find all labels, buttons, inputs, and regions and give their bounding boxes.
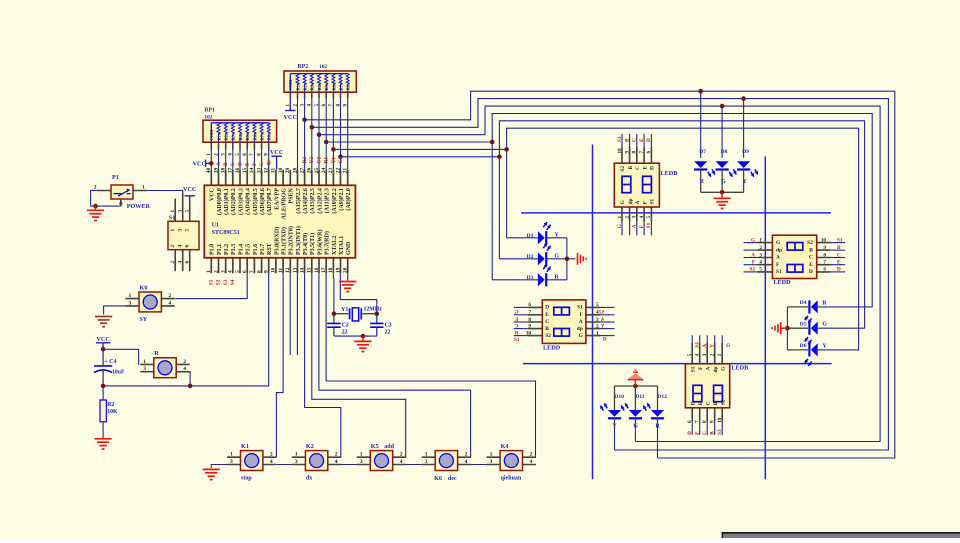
svg-text:3: 3	[178, 229, 184, 232]
capacitor C4 10uF	[102, 349, 104, 386]
svg-text:8: 8	[632, 151, 638, 154]
push button K0	[126, 284, 175, 323]
svg-text:R2: R2	[107, 402, 114, 408]
svg-text:9: 9	[710, 420, 716, 423]
capacitor C3 22	[376, 314, 378, 336]
svg-text:9: 9	[823, 245, 826, 251]
svg-text:2: 2	[465, 452, 468, 458]
svg-text:B: B	[837, 245, 841, 251]
wire net R2 bus line1	[305, 91, 895, 458]
svg-text:3: 3	[360, 459, 363, 465]
svg-text:D5: D5	[800, 321, 807, 327]
svg-text:Y: Y	[710, 344, 716, 348]
wire net R1 bus line4	[326, 114, 872, 307]
svg-text:3: 3	[596, 317, 599, 323]
svg-text:(A14)P2.6: (A14)P2.6	[302, 188, 309, 214]
svg-text:G: G	[514, 310, 518, 316]
svg-text:A: A	[632, 224, 638, 228]
svg-text:R6w: R6w	[331, 81, 336, 90]
resistor R2 10K	[102, 386, 104, 400]
svg-text:3: 3	[632, 216, 638, 219]
svg-text:P3.7(RD): P3.7(RD)	[324, 231, 331, 255]
wire crystal caps common	[334, 335, 377, 337]
wire button chain bottom pins	[277, 464, 536, 466]
svg-text:R8w: R8w	[267, 131, 272, 140]
power rail above D10-D12	[615, 385, 658, 387]
svg-text:12: 12	[285, 267, 291, 273]
push button R	[140, 350, 189, 377]
svg-text:14: 14	[299, 267, 305, 273]
svg-text:qiehuan: qiehuan	[501, 476, 522, 482]
svg-text:E: E	[639, 138, 645, 142]
svg-text:2: 2	[530, 452, 533, 458]
svg-text:P3.4(T0): P3.4(T0)	[302, 233, 309, 255]
wire P3.4 to K2	[305, 273, 341, 457]
led D6	[787, 343, 827, 366]
svg-text:VCC: VCC	[284, 114, 297, 121]
svg-text:K4: K4	[501, 443, 509, 450]
svg-text:6: 6	[823, 267, 826, 273]
svg-text:D: D	[809, 269, 813, 275]
wire P1 pin1 to S1 pin3	[147, 191, 183, 194]
svg-text:C: C	[702, 431, 708, 435]
7-seg display LEDD right	[744, 235, 846, 286]
svg-text:3: 3	[230, 459, 233, 465]
push button K5	[357, 443, 406, 471]
connector S1	[168, 193, 199, 271]
svg-text:1: 1	[170, 229, 176, 232]
svg-text:G: G	[721, 179, 726, 185]
svg-text:(A10)P2.2: (A10)P2.2	[331, 188, 338, 214]
svg-text:D2: D2	[527, 254, 534, 260]
led D11	[621, 386, 645, 442]
svg-text:1: 1	[717, 353, 723, 356]
svg-text:10: 10	[526, 330, 532, 336]
svg-text:R2: R2	[302, 157, 308, 164]
svg-text:R5w: R5w	[324, 81, 329, 90]
push button K4	[487, 443, 536, 482]
svg-text:R1w: R1w	[295, 81, 300, 90]
svg-text:12MHz: 12MHz	[364, 307, 383, 313]
svg-text:6: 6	[242, 270, 248, 273]
svg-text:U1: U1	[212, 223, 219, 229]
svg-text:VCC: VCC	[270, 149, 283, 156]
svg-text:1: 1	[617, 216, 623, 219]
led D12	[643, 386, 667, 458]
svg-text:S4: S4	[230, 279, 236, 285]
wire D3 feed from line4	[491, 142, 493, 280]
svg-text:P3.0(RXD): P3.0(RXD)	[273, 227, 280, 255]
led D9	[737, 96, 758, 192]
svg-text:G: G	[822, 322, 827, 328]
svg-text:D9: D9	[742, 149, 749, 155]
svg-text:18: 18	[328, 267, 334, 273]
svg-text:G: G	[751, 237, 755, 243]
svg-text:D3: D3	[527, 275, 534, 281]
wire reset line to U1 RST	[103, 273, 269, 386]
svg-text:E: E	[809, 262, 813, 268]
wire D1 feed from line5	[506, 149, 508, 237]
svg-text:C: C	[705, 401, 711, 405]
svg-text:G2: G2	[316, 156, 322, 163]
svg-text:7: 7	[823, 260, 826, 266]
svg-text:1: 1	[129, 293, 132, 299]
ground at K1	[203, 468, 220, 470]
svg-text:P1.2: P1.2	[224, 244, 230, 255]
svg-text:4: 4	[639, 216, 645, 219]
svg-text:D10: D10	[614, 394, 624, 400]
led D4	[787, 300, 827, 323]
svg-text:3: 3	[119, 202, 125, 205]
switch P1 POWER	[94, 174, 151, 210]
svg-text:(AD1)P0.1: (AD1)P0.1	[223, 188, 230, 215]
led D3	[492, 264, 559, 286]
svg-text:F: F	[252, 163, 258, 166]
led D5	[787, 321, 827, 344]
svg-text:4: 4	[178, 261, 184, 264]
wire P3.2 stub	[289, 273, 291, 355]
svg-text:(AD3)P0.3: (AD3)P0.3	[237, 188, 244, 215]
wire bright vertical V1	[592, 145, 594, 480]
svg-text:P3.5(T1): P3.5(T1)	[309, 233, 316, 255]
svg-text:S2: S2	[620, 166, 626, 172]
svg-text:1: 1	[425, 452, 428, 458]
svg-text:4: 4	[270, 459, 273, 465]
svg-text:S2: S2	[599, 310, 605, 316]
svg-text:2: 2	[759, 245, 762, 251]
svg-text:G: G	[720, 367, 726, 371]
svg-text:RST: RST	[267, 243, 273, 255]
svg-text:1: 1	[143, 359, 146, 365]
svg-text:R4w: R4w	[238, 131, 243, 140]
power VCC on S1 pin5	[185, 195, 195, 197]
svg-text:D: D	[650, 166, 656, 170]
svg-text:1: 1	[490, 452, 493, 458]
svg-text:R1w: R1w	[216, 131, 221, 140]
svg-text:13: 13	[292, 267, 298, 273]
ground sideways right of D2	[577, 253, 579, 265]
push button K2	[292, 443, 341, 482]
svg-text:4: 4	[596, 310, 599, 316]
svg-text:F: F	[639, 225, 645, 228]
svg-text:B: B	[514, 330, 518, 336]
svg-text:(AD2)P0.2: (AD2)P0.2	[230, 188, 237, 215]
svg-text:G1: G1	[338, 156, 344, 163]
svg-text:G: G	[259, 162, 265, 166]
wire R pin4 down to reset line	[189, 372, 191, 386]
svg-text:(A11)P2.3: (A11)P2.3	[324, 188, 331, 213]
svg-text:S1: S1	[690, 366, 696, 372]
svg-text:P1.7: P1.7	[260, 244, 266, 255]
svg-text:P1.0: P1.0	[210, 244, 216, 255]
ground below D7-D9	[721, 192, 723, 198]
svg-text:4: 4	[400, 459, 403, 465]
svg-text:R3w: R3w	[231, 131, 236, 140]
svg-text:COM: COM	[288, 80, 293, 91]
svg-text:22: 22	[342, 329, 348, 335]
svg-text:(AD6)P0.6: (AD6)P0.6	[259, 188, 266, 215]
ground at U1 GND	[339, 281, 356, 283]
push button K1	[227, 443, 276, 482]
svg-text:XTAL2: XTAL2	[332, 236, 338, 255]
svg-text:7: 7	[639, 151, 645, 154]
svg-text:S1: S1	[514, 337, 520, 343]
svg-text:A: A	[601, 317, 605, 323]
svg-text:(AD4)P0.4: (AD4)P0.4	[245, 188, 252, 215]
svg-text:D4: D4	[800, 300, 807, 306]
svg-text:4: 4	[178, 245, 184, 248]
wire D2 cathode to ground	[547, 258, 576, 260]
svg-text:11: 11	[278, 268, 284, 273]
svg-text:B: B	[713, 401, 719, 405]
led D8	[716, 104, 737, 193]
svg-text:LEDD: LEDD	[773, 279, 791, 286]
svg-text:R3w: R3w	[310, 81, 315, 90]
svg-text:F: F	[752, 260, 755, 266]
svg-text:(AD5)P0.5: (AD5)P0.5	[252, 188, 259, 215]
wire D1 D3 cathodes joined	[547, 237, 567, 239]
svg-text:P1.1: P1.1	[217, 244, 223, 255]
svg-text:S1: S1	[837, 237, 843, 243]
svg-text:102: 102	[204, 115, 212, 121]
crystal Y1 12MHz	[334, 313, 377, 315]
svg-text:D12: D12	[657, 394, 667, 400]
svg-text:D: D	[237, 162, 243, 166]
svg-text:A: A	[751, 252, 755, 258]
svg-text:29: 29	[285, 168, 291, 174]
svg-text:3: 3	[143, 366, 146, 372]
svg-text:D1: D1	[527, 233, 534, 239]
svg-text:2: 2	[170, 261, 176, 264]
svg-text:S1: S1	[776, 269, 782, 275]
svg-text:K0: K0	[140, 284, 148, 291]
svg-text:S1: S1	[169, 216, 175, 222]
svg-text:C3: C3	[385, 322, 392, 328]
svg-text:P1.4: P1.4	[238, 244, 244, 255]
svg-text:3: 3	[490, 459, 493, 465]
wire bright horizontal H2	[523, 363, 832, 365]
svg-text:2: 2	[183, 359, 186, 365]
push button K6	[422, 451, 471, 471]
svg-text:VCC: VCC	[210, 188, 216, 201]
svg-text:PSEN: PSEN	[289, 187, 295, 203]
svg-text:(AD0)P0.0: (AD0)P0.0	[216, 188, 223, 215]
ground below crystal	[362, 336, 364, 341]
svg-text:S1: S1	[577, 305, 583, 311]
wire net G2 bus line3	[319, 106, 880, 441]
svg-text:E: E	[642, 166, 648, 170]
mcu U1 STC89C51	[204, 168, 355, 274]
svg-text:10: 10	[821, 237, 827, 243]
power VCC below RP2 pin1	[289, 98, 291, 111]
svg-text:+ C4: + C4	[105, 359, 117, 365]
svg-text:D: D	[687, 431, 693, 435]
svg-text:22: 22	[385, 329, 391, 335]
svg-text:3: 3	[221, 270, 227, 273]
svg-text:E: E	[245, 162, 251, 166]
svg-text:6: 6	[185, 261, 191, 264]
svg-text:4: 4	[759, 260, 762, 266]
svg-text:(A8)P2.0: (A8)P2.0	[345, 188, 352, 211]
wire P3.1 to K1	[276, 273, 283, 457]
svg-text:4: 4	[465, 459, 468, 465]
svg-text:B: B	[710, 431, 716, 435]
wire D7-D9 cathini common rail	[701, 191, 744, 193]
svg-text:(A9)P2.1: (A9)P2.1	[338, 188, 345, 211]
svg-text:LEDD: LEDD	[543, 345, 561, 352]
svg-text:S1: S1	[209, 279, 215, 285]
svg-text:1: 1	[759, 237, 762, 243]
svg-text:S3: S3	[717, 429, 723, 435]
svg-text:R1: R1	[324, 157, 330, 164]
title block edge bottom right	[722, 532, 960, 538]
svg-text:2: 2	[624, 216, 630, 219]
svg-text:LEDB: LEDB	[731, 364, 748, 371]
svg-text:E: E	[695, 431, 701, 435]
svg-text:2: 2	[335, 452, 338, 458]
svg-text:D: D	[603, 337, 607, 343]
svg-text:10: 10	[717, 417, 723, 423]
svg-text:C: C	[809, 255, 813, 261]
svg-text:G: G	[726, 343, 730, 349]
svg-text:B: B	[624, 138, 630, 142]
svg-text:20: 20	[343, 267, 349, 273]
svg-text:6: 6	[528, 302, 531, 308]
led D2	[499, 243, 559, 265]
svg-text:E: E	[545, 312, 549, 318]
wire net Y1 bus line5	[333, 128, 858, 350]
svg-text:S2: S2	[545, 333, 551, 339]
svg-text:Y2: Y2	[309, 157, 315, 164]
wire D2 feed from line6	[498, 157, 500, 259]
svg-text:dp: dp	[776, 247, 782, 253]
svg-text:S4: S4	[695, 342, 701, 348]
svg-text:19: 19	[335, 267, 341, 273]
svg-text:102: 102	[319, 64, 327, 70]
svg-text:(AD7)P0.7: (AD7)P0.7	[266, 188, 273, 215]
svg-text:EA/VPP: EA/VPP	[274, 188, 280, 210]
svg-text:P3.6(WR): P3.6(WR)	[316, 230, 323, 256]
svg-text:P1.6: P1.6	[253, 244, 259, 255]
svg-text:D6: D6	[800, 343, 807, 349]
svg-text:C: C	[635, 166, 641, 170]
svg-text:D11: D11	[635, 394, 645, 400]
svg-text:17: 17	[321, 267, 327, 273]
svg-text:8: 8	[256, 270, 262, 273]
svg-text:E: E	[514, 317, 518, 323]
svg-text:4: 4	[695, 353, 701, 356]
svg-text:3: 3	[178, 210, 184, 213]
svg-text:dx: dx	[306, 476, 312, 482]
svg-text:A: A	[635, 200, 641, 204]
svg-text:GND: GND	[346, 241, 352, 255]
svg-text:Y1: Y1	[341, 307, 348, 313]
ground sideways left of D5	[782, 327, 788, 329]
svg-text:LEDB: LEDB	[661, 170, 678, 177]
svg-text:9: 9	[264, 270, 270, 273]
svg-text:30: 30	[278, 168, 284, 174]
svg-text:7: 7	[695, 420, 701, 423]
svg-text:10K: 10K	[107, 409, 118, 415]
wire P1 pin2 and pin3 to ground	[91, 191, 121, 207]
svg-text:R6w: R6w	[252, 131, 257, 140]
wire P3.7 to K4	[326, 273, 535, 457]
svg-text:G: G	[617, 224, 623, 228]
svg-text:RP2: RP2	[298, 64, 309, 70]
svg-text:RP1: RP1	[204, 108, 215, 114]
svg-text:B: B	[809, 247, 813, 253]
svg-text:8: 8	[702, 420, 708, 423]
wire K1 pins to ground	[211, 465, 227, 469]
svg-text:4: 4	[168, 300, 171, 306]
svg-text:3: 3	[759, 252, 762, 258]
7-seg display LEDD left	[514, 300, 615, 352]
wire U1 XTAL1 to crystal right	[340, 273, 377, 313]
svg-text:1: 1	[360, 452, 363, 458]
wire D4-D6 anode bar	[786, 307, 788, 350]
svg-text:5: 5	[185, 229, 191, 232]
svg-text:Y1: Y1	[331, 157, 337, 164]
svg-text:D: D	[837, 267, 841, 273]
svg-text:B: B	[628, 166, 634, 170]
svg-text:S3: S3	[617, 136, 623, 142]
svg-text:S2: S2	[750, 267, 756, 273]
wire bright horizontal H1	[521, 212, 831, 214]
svg-text:10uF: 10uF	[112, 370, 125, 376]
svg-text:Y: Y	[601, 323, 605, 329]
ground below R2	[95, 438, 112, 440]
svg-text:VCC: VCC	[193, 161, 206, 168]
svg-text:P1: P1	[112, 174, 119, 181]
resistor pack RP1	[203, 120, 277, 142]
svg-text:P1.5: P1.5	[246, 244, 252, 255]
svg-text:R5w: R5w	[245, 131, 250, 140]
svg-text:16: 16	[314, 267, 320, 273]
svg-text:7: 7	[249, 270, 255, 273]
svg-text:D7: D7	[699, 149, 706, 155]
svg-text:A: A	[705, 366, 711, 370]
svg-text:C2: C2	[342, 322, 349, 328]
led D7	[694, 89, 715, 192]
wire K0 pin3 to ground	[104, 306, 126, 315]
svg-text:dp: dp	[628, 198, 634, 204]
svg-text:C: C	[837, 252, 841, 258]
svg-text:6: 6	[646, 151, 652, 154]
svg-text:6: 6	[687, 420, 693, 423]
svg-text:S1: S1	[650, 198, 656, 204]
svg-text:D8: D8	[721, 149, 728, 155]
svg-text:2: 2	[400, 452, 403, 458]
svg-text:1: 1	[170, 210, 176, 213]
capacitor C2 22	[333, 314, 335, 336]
wire net G1 bus line6	[341, 121, 865, 328]
svg-text:P1.3: P1.3	[231, 244, 237, 255]
svg-text:7: 7	[528, 310, 531, 316]
wire VCC junction to R pin1	[103, 349, 139, 365]
svg-text:R7w: R7w	[338, 81, 343, 90]
svg-text:S2: S2	[807, 240, 813, 246]
svg-text:B: B	[223, 162, 229, 166]
svg-text:S1: S1	[646, 222, 652, 228]
svg-text:SY: SY	[140, 317, 148, 323]
svg-text:31: 31	[271, 168, 277, 174]
svg-text:(A13)P2.5: (A13)P2.5	[309, 188, 316, 214]
svg-text:5: 5	[687, 353, 693, 356]
svg-text:C: C	[632, 138, 638, 142]
svg-text:4: 4	[183, 366, 186, 372]
svg-text:4: 4	[335, 459, 338, 465]
svg-text:K1: K1	[241, 443, 249, 450]
